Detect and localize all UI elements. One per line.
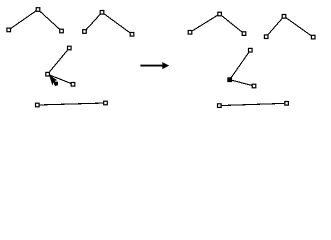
- node A1 handle: [7, 28, 11, 32]
- node F3 handle: [311, 35, 315, 39]
- big transformation arrow shaft: [140, 65, 163, 67]
- wire: left bottom line D: [37, 103, 105, 105]
- node D2 handle: [104, 101, 108, 105]
- node B2 handle: [100, 11, 104, 15]
- wire: left tent B segment 1: [85, 12, 103, 31]
- node H1 handle: [218, 104, 222, 108]
- node H2 handle: [285, 102, 289, 106]
- wire: right zigzag G segment 1: [230, 50, 251, 79]
- wire: right zigzag G segment 2: [230, 80, 254, 86]
- node E3 handle: [242, 32, 246, 36]
- node E1 handle: [188, 31, 192, 35]
- node A2 handle: [36, 8, 40, 12]
- node F2 handle: [282, 15, 286, 19]
- node B3 handle: [130, 33, 134, 37]
- node C1 handle: [68, 46, 72, 50]
- wire: right tent F segment 2: [284, 16, 313, 37]
- wire: right bottom line H: [219, 103, 286, 105]
- node B1 handle: [83, 30, 87, 34]
- node G2 handle (moved vertex, filled): [227, 77, 232, 82]
- node C2 handle (grabbed vertex): [46, 72, 50, 76]
- wire: right tent E segment 1: [190, 14, 220, 32]
- big transformation arrow head: [162, 62, 169, 69]
- wire: right tent E segment 2: [220, 14, 244, 34]
- wire: left zigzag C segment 2: [48, 74, 73, 84]
- node C3 handle: [71, 83, 75, 87]
- node E2 handle: [218, 12, 222, 16]
- wire: right tent F segment 1: [266, 16, 284, 36]
- node G3 handle: [252, 84, 256, 88]
- mouse cursor pointer grabbing node C2: [49, 75, 57, 87]
- node D1 handle: [36, 103, 40, 107]
- node A3 handle: [60, 29, 64, 33]
- wire: left zigzag C segment 1: [48, 48, 70, 74]
- small filled square beside cursor: [54, 82, 58, 86]
- node F1 handle: [264, 35, 268, 39]
- wire: left tent A segment 2: [38, 10, 62, 32]
- node G1 handle: [249, 48, 253, 52]
- wire: left tent B segment 2: [102, 12, 132, 34]
- wire: left tent A segment 1: [9, 10, 38, 30]
